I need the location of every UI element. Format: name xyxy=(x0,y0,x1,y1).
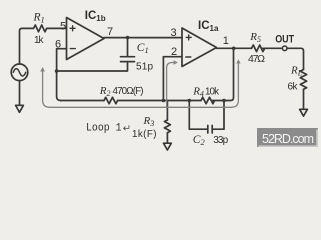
watermark 52RD.com xyxy=(257,128,318,147)
op-amp U1 IC1b xyxy=(67,18,105,60)
ground (RL) xyxy=(300,109,308,116)
svg-text:1k(F): 1k(F) xyxy=(132,129,157,140)
wire C2 left leg xyxy=(189,101,208,130)
wire R1 to pin 5 xyxy=(47,27,67,29)
AC source V1 xyxy=(11,64,28,81)
wire pin6 node to C1 bottom xyxy=(57,62,128,71)
svg-text:33p: 33p xyxy=(213,135,228,146)
OUT terminal xyxy=(282,46,287,51)
svg-text:OUT: OUT xyxy=(275,34,294,46)
svg-text:2: 2 xyxy=(171,46,177,58)
resistor R1 xyxy=(34,25,47,32)
node C2 left xyxy=(188,99,192,103)
resistor R4 xyxy=(201,97,215,103)
svg-text:3: 3 xyxy=(171,27,177,39)
wire R2 to R4 xyxy=(118,100,201,102)
node C2 right xyxy=(222,99,226,103)
wire R4 to output riser xyxy=(213,48,234,100)
svg-text:6: 6 xyxy=(55,38,61,50)
svg-text:Loop 1: Loop 1 xyxy=(86,123,122,135)
resistor RL xyxy=(300,70,306,90)
svg-text:10k: 10k xyxy=(205,86,219,97)
ground (source) xyxy=(16,105,24,112)
node pin6/C1 junction xyxy=(55,69,59,73)
wire C2 right leg xyxy=(212,101,224,130)
ground (R3) xyxy=(164,143,172,150)
wire pin 7 to pin 3 xyxy=(104,37,182,39)
capacitor C1 xyxy=(121,38,135,62)
resistor R3 xyxy=(164,120,170,133)
node pin2 feedback junction xyxy=(162,99,166,103)
svg-text:52RD.com: 52RD.com xyxy=(262,132,314,146)
wire pin 6 input xyxy=(57,49,67,101)
svg-text:6k: 6k xyxy=(288,82,299,93)
capacitor C2 xyxy=(208,125,212,133)
wire R3 to ground xyxy=(166,133,168,144)
svg-text:470Ω(F): 470Ω(F) xyxy=(113,86,144,97)
Loop 1 annotation arrows xyxy=(40,59,240,107)
svg-text:47Ω: 47Ω xyxy=(248,53,265,65)
wire R2 segment xyxy=(61,100,104,102)
op-amp U2 IC1a xyxy=(182,28,217,67)
wire pin 2 input xyxy=(163,57,182,101)
svg-text:1k: 1k xyxy=(34,35,45,46)
resistor R2 xyxy=(104,97,118,103)
wire OUT to RL xyxy=(287,48,304,69)
svg-text:↵: ↵ xyxy=(123,123,131,134)
wire pin1 to R5 xyxy=(217,47,252,49)
wire source to ground xyxy=(19,81,21,106)
svg-text:51p: 51p xyxy=(136,62,153,73)
svg-text:7: 7 xyxy=(107,26,113,38)
node C1 top junction xyxy=(126,36,130,40)
wire R5 to OUT terminal xyxy=(263,47,283,49)
svg-text:1: 1 xyxy=(223,35,229,47)
node feedback/output junction xyxy=(232,47,236,51)
wire R3 top xyxy=(166,101,168,121)
wire source top to R1 xyxy=(20,28,34,63)
resistor R5 xyxy=(252,45,265,52)
svg-text:5: 5 xyxy=(60,21,66,33)
wire RL to ground xyxy=(303,89,305,109)
